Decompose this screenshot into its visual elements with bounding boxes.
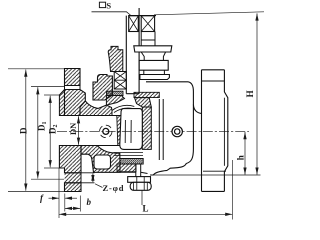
dimension D1 xyxy=(31,87,64,180)
right flange plate xyxy=(202,70,228,192)
plug dome arcs xyxy=(112,105,134,112)
dimension b xyxy=(65,196,92,212)
stem xyxy=(126,8,139,94)
svg-text:Z-φd: Z-φd xyxy=(103,183,125,193)
bonnet left wall column xyxy=(93,75,112,101)
stem head cap xyxy=(128,15,156,17)
plug axis circles xyxy=(100,125,112,137)
bolt hole band bottom (hatched) xyxy=(65,173,82,183)
left flange bottom block xyxy=(65,173,82,192)
bottom extension line (body base) xyxy=(150,174,261,176)
side screw crossed box xyxy=(141,16,154,32)
label square-S xyxy=(99,1,111,11)
gland flange plate xyxy=(134,46,172,52)
bonnet neck2 xyxy=(144,70,165,74)
bottom stem and nut xyxy=(120,164,151,190)
body top outline right xyxy=(146,82,202,175)
svg-text:S: S xyxy=(106,1,111,11)
seat wedge right of plug dome xyxy=(135,98,152,107)
seat wedge left of plug dome xyxy=(106,96,124,106)
top extension line to H xyxy=(154,12,264,15)
svg-text:b: b xyxy=(87,197,92,207)
dimension H xyxy=(245,13,257,174)
left flange mid-bottom and raised face xyxy=(59,146,81,173)
bonnet left wedge xyxy=(108,46,123,71)
side screw column xyxy=(141,32,155,46)
flow centerline xyxy=(57,130,249,132)
svg-text:H: H xyxy=(245,90,255,97)
bonnet drum xyxy=(139,60,168,70)
packing box left (crossed) xyxy=(114,72,126,90)
body lower-left hatched mass with cavity xyxy=(81,146,120,173)
plug (tapered, rounded) xyxy=(120,109,143,150)
phi-d arrows xyxy=(92,174,94,183)
dimension L xyxy=(59,160,232,220)
body boss double circle xyxy=(172,126,182,136)
dimension f xyxy=(40,168,77,218)
left flange mid-top with hub xyxy=(59,86,85,116)
bore lines xyxy=(59,115,116,117)
plug bottom dense band xyxy=(114,153,144,172)
svg-text:L: L xyxy=(143,204,149,214)
svg-text:h: h xyxy=(235,155,245,160)
bonnet joint band right xyxy=(134,92,159,97)
dimension D xyxy=(8,69,64,192)
dimension DN xyxy=(68,116,79,145)
seat strip left of plug xyxy=(117,116,122,146)
gland neck xyxy=(141,52,165,60)
chamber wall right xyxy=(159,99,163,160)
leader below nut xyxy=(141,190,143,205)
label Z-phi-d with leader xyxy=(95,183,124,193)
left shoulder mass xyxy=(80,101,112,116)
svg-text:D: D xyxy=(19,127,29,134)
bolt hole band bottom with phi-d extension lines xyxy=(65,173,95,183)
leader from square-S to stem head xyxy=(92,12,132,16)
bonnet base plate xyxy=(140,75,170,80)
dimension D2 xyxy=(44,95,60,168)
seat column right of plug xyxy=(142,107,151,149)
bonnet joint band left (dense) xyxy=(107,91,124,95)
left flange section top block xyxy=(65,69,81,86)
dimension h xyxy=(235,132,245,175)
svg-text:DN: DN xyxy=(68,122,78,135)
stem square head crossed box xyxy=(129,16,139,32)
body shoulder curve left xyxy=(85,101,98,109)
